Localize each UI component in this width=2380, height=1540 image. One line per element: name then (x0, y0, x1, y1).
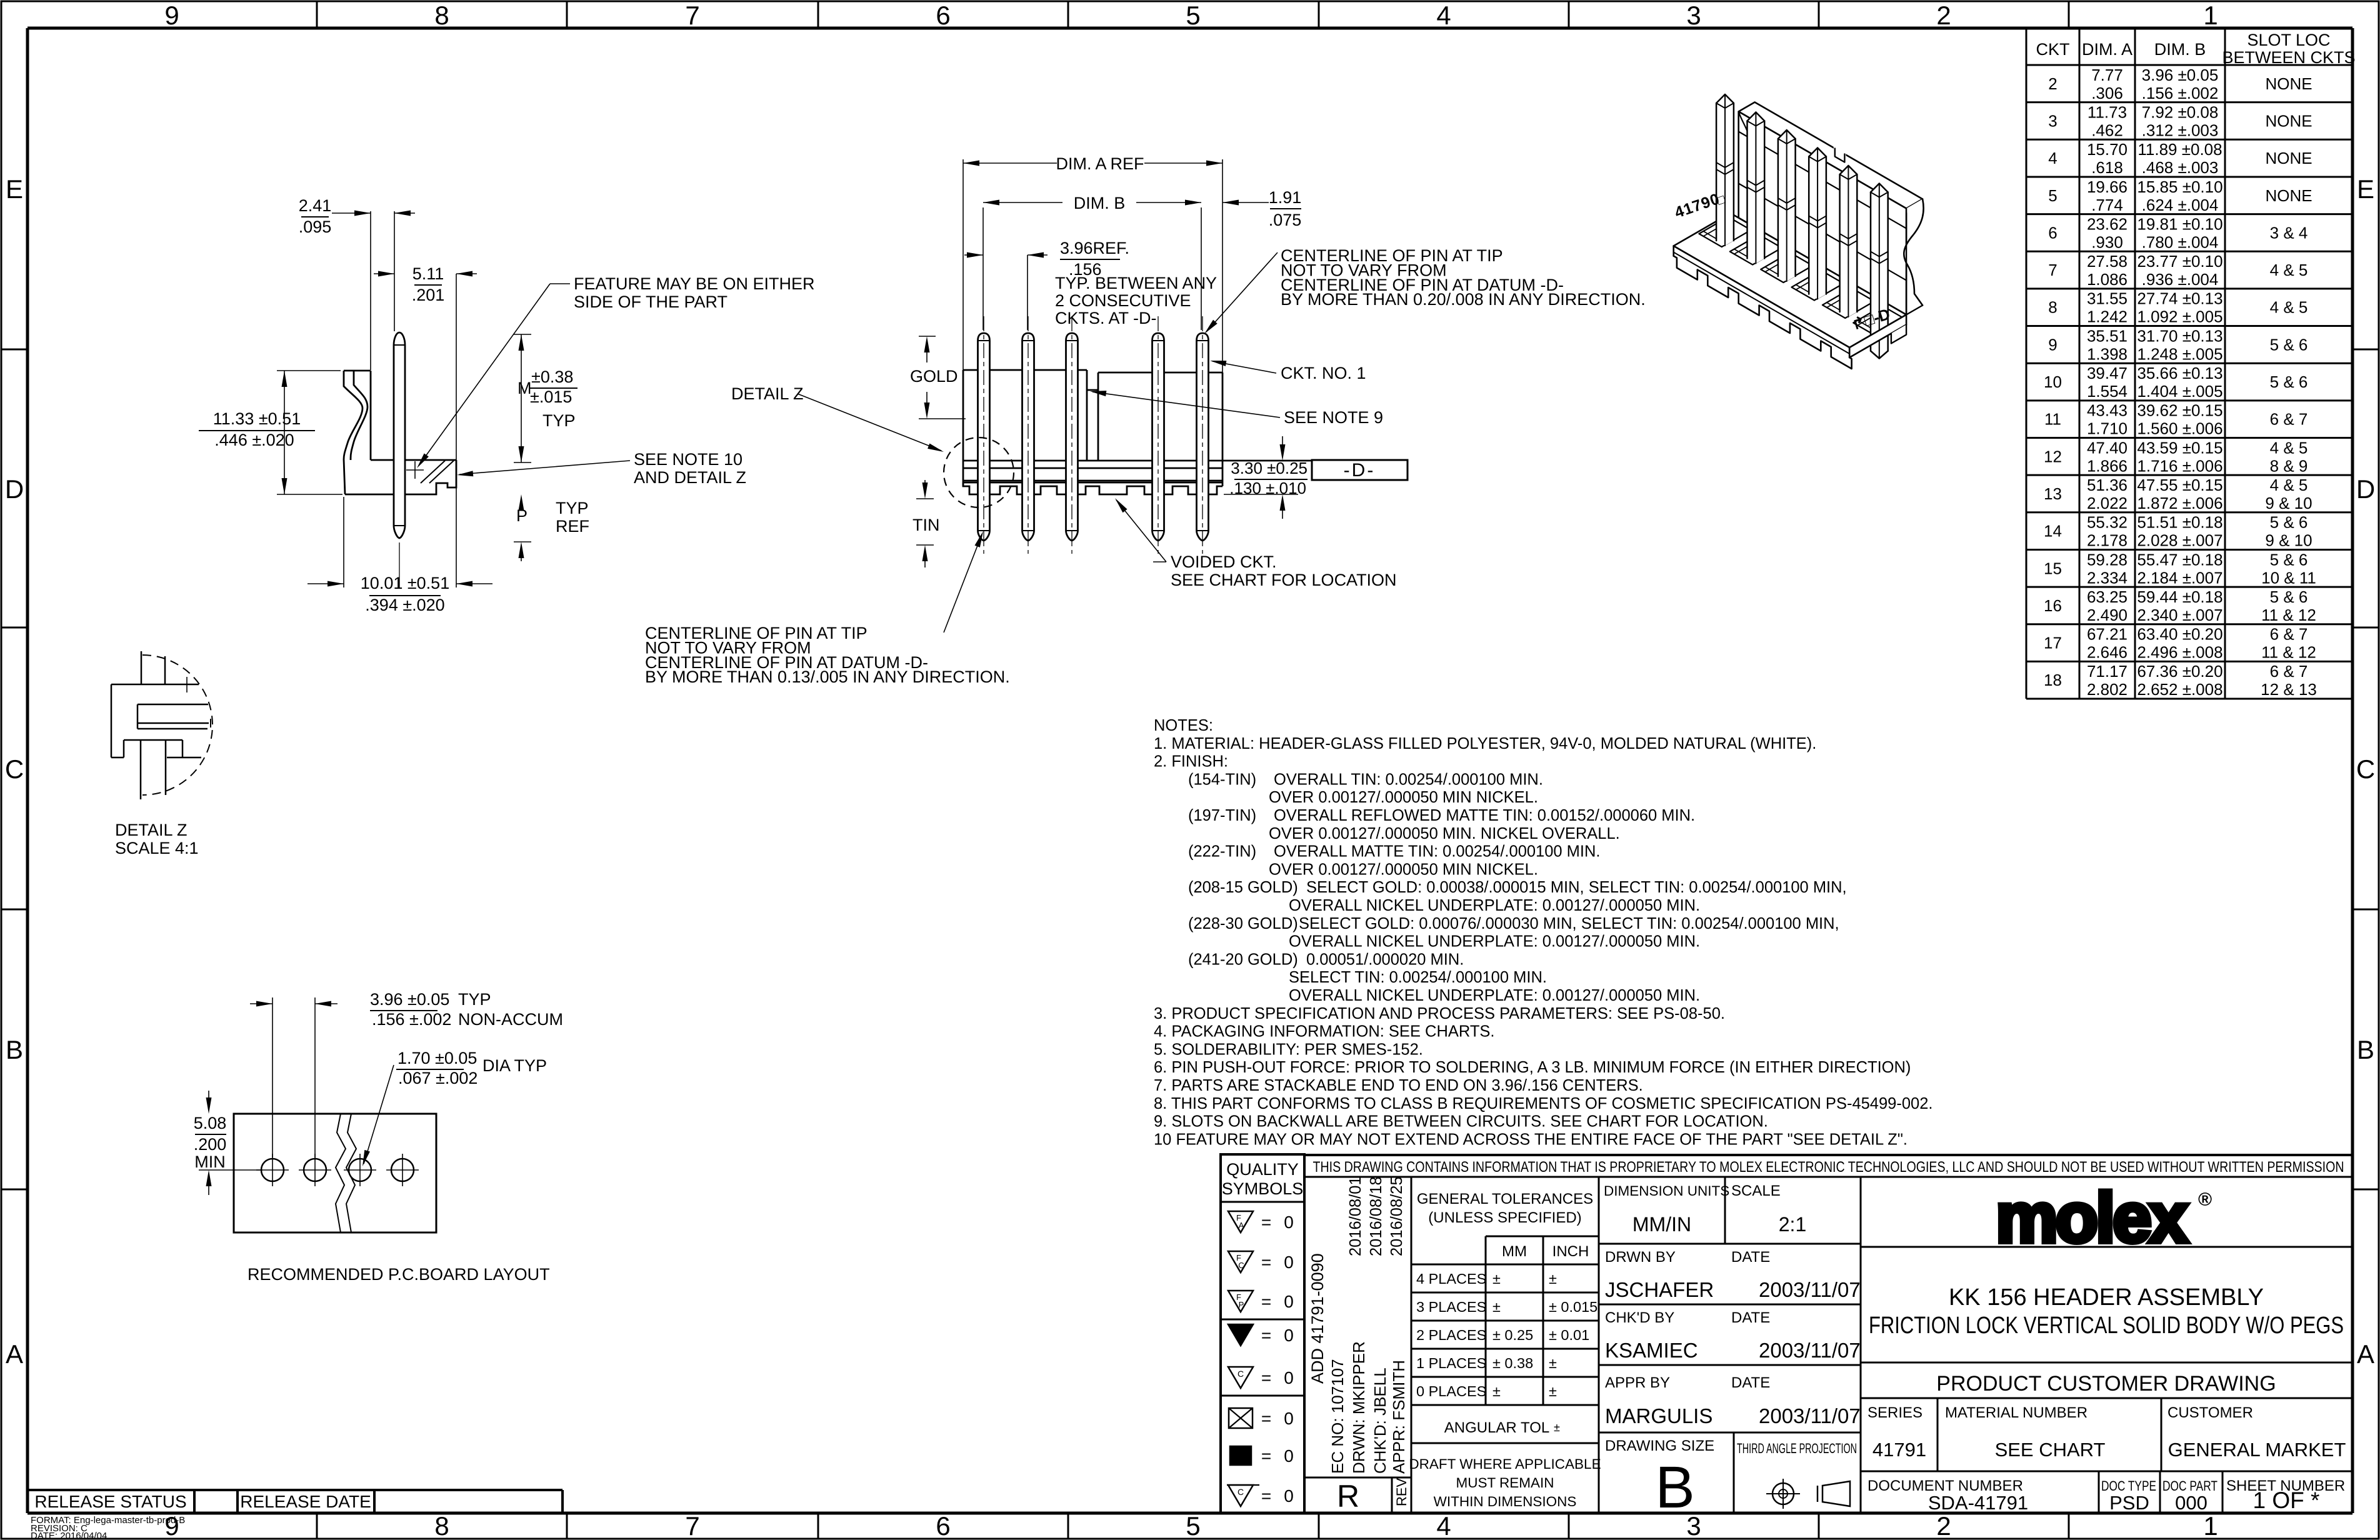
svg-text:8: 8 (2048, 298, 2057, 317)
svg-text:DIM. A REF: DIM. A REF (1056, 154, 1144, 173)
svg-text:5 & 6: 5 & 6 (2270, 550, 2308, 569)
svg-text:DETAIL Z: DETAIL Z (731, 384, 804, 403)
svg-text:16: 16 (2044, 596, 2062, 615)
svg-text:0: 0 (1284, 1486, 1294, 1506)
svg-text:AND DETAIL Z: AND DETAIL Z (634, 468, 746, 487)
svg-text:35.51: 35.51 (2087, 326, 2127, 345)
svg-text:11: 11 (2044, 410, 2061, 429)
svg-text:DATE: 2016/04/04: DATE: 2016/04/04 (31, 1531, 107, 1540)
svg-text:15: 15 (2044, 559, 2062, 577)
svg-text:=: = (1261, 1212, 1271, 1232)
svg-text:.156 ±.002: .156 ±.002 (372, 1010, 451, 1029)
svg-text:3: 3 (1686, 1, 1701, 30)
svg-text:=: = (1261, 1486, 1271, 1506)
svg-text:SIDE OF THE PART: SIDE OF THE PART (574, 292, 727, 311)
svg-text:6: 6 (2048, 223, 2057, 242)
svg-text:2.184 ±.007: 2.184 ±.007 (2137, 568, 2222, 587)
svg-text:43.59 ±0.15: 43.59 ±0.15 (2137, 438, 2222, 457)
svg-text:SEE CHART FOR LOCATION: SEE CHART FOR LOCATION (1171, 571, 1397, 589)
svg-text:59.28: 59.28 (2087, 550, 2127, 569)
svg-text:=: = (1261, 1446, 1271, 1466)
svg-text:51.51 ±0.18: 51.51 ±0.18 (2137, 513, 2222, 532)
svg-text:2: 2 (1936, 1511, 1951, 1540)
svg-text:31.70 ±0.13: 31.70 ±0.13 (2137, 326, 2222, 345)
svg-text:CKT. NO. 1: CKT. NO. 1 (1281, 364, 1366, 382)
svg-text:6 & 7: 6 & 7 (2270, 625, 2308, 644)
svg-text:.306: .306 (2091, 84, 2123, 102)
svg-text:4 & 5: 4 & 5 (2270, 298, 2308, 317)
svg-text:BETWEEN CKTS: BETWEEN CKTS (2222, 48, 2355, 67)
svg-text:.468 ±.003: .468 ±.003 (2142, 158, 2219, 177)
svg-text:OVERALL NICKEL UNDERPLATE: 0.0: OVERALL NICKEL UNDERPLATE: 0.00127/.0000… (1289, 897, 1700, 914)
svg-text:2: 2 (2048, 74, 2057, 93)
svg-text:.618: .618 (2091, 158, 2123, 177)
svg-text:CUSTOMER: CUSTOMER (2167, 1404, 2253, 1421)
svg-text:REF: REF (556, 517, 589, 536)
svg-text:10 & 11: 10 & 11 (2261, 568, 2316, 587)
svg-text:TYP: TYP (556, 499, 589, 517)
svg-text:67.36 ±0.20: 67.36 ±0.20 (2137, 662, 2222, 681)
svg-text:2016/08/01: 2016/08/01 (1347, 1176, 1364, 1256)
svg-text:19.81 ±0.10: 19.81 ±0.10 (2137, 214, 2222, 233)
svg-text:.462: .462 (2091, 121, 2123, 139)
svg-text:DATE: DATE (1731, 1249, 1770, 1266)
svg-text:OVERALL TIN: 0.00254/.000100 M: OVERALL TIN: 0.00254/.000100 MIN. (1274, 771, 1543, 788)
svg-text:2.340 ±.007: 2.340 ±.007 (2137, 606, 2222, 624)
svg-text:DRWN: MKIPPER: DRWN: MKIPPER (1349, 1341, 1368, 1474)
svg-text:9. SLOTS ON BACKWALL ARE BETWE: 9. SLOTS ON BACKWALL ARE BETWEEN CIRCUIT… (1154, 1113, 1768, 1131)
svg-text:5. SOLDERABILITY: PER SMES-152: 5. SOLDERABILITY: PER SMES-152. (1154, 1041, 1423, 1058)
svg-text:.780 ±.004: .780 ±.004 (2142, 232, 2219, 251)
svg-text:8: 8 (434, 1, 449, 30)
svg-text:OVER 0.00127/.000050 MIN NICKE: OVER 0.00127/.000050 MIN NICKEL. (1269, 861, 1538, 878)
svg-text:SLOT LOC: SLOT LOC (2247, 31, 2330, 49)
svg-text:JSCHAFER: JSCHAFER (1605, 1278, 1714, 1301)
svg-text:NONE: NONE (2265, 149, 2312, 167)
svg-text:2016/08/18: 2016/08/18 (1367, 1176, 1385, 1256)
svg-text:C: C (2356, 754, 2375, 784)
svg-text:MARGULIS: MARGULIS (1605, 1404, 1712, 1427)
svg-text:2 CONSECUTIVE: 2 CONSECUTIVE (1055, 291, 1191, 310)
svg-text:EC NO: 107107: EC NO: 107107 (1328, 1359, 1347, 1474)
svg-text:5 & 6: 5 & 6 (2270, 335, 2308, 354)
svg-text:71.17: 71.17 (2087, 662, 2127, 681)
svg-text:± 0.015: ± 0.015 (1549, 1299, 1597, 1315)
svg-text:NOTES:: NOTES: (1154, 717, 1213, 734)
svg-text:1: 1 (2203, 1, 2217, 30)
svg-text:2.022: 2.022 (2087, 494, 2127, 512)
svg-text:47.40: 47.40 (2087, 438, 2127, 457)
svg-text:.130 ±.010: .130 ±.010 (1229, 479, 1306, 497)
svg-text:=: = (1261, 1252, 1271, 1272)
svg-text:D: D (2356, 474, 2375, 504)
svg-text:2016/08/25: 2016/08/25 (1388, 1176, 1406, 1256)
svg-text:VOIDED CKT.: VOIDED CKT. (1171, 552, 1277, 571)
svg-text:4 PLACES: 4 PLACES (1416, 1271, 1486, 1287)
svg-text:(UNLESS SPECIFIED): (UNLESS SPECIFIED) (1428, 1209, 1581, 1226)
svg-text:55.32: 55.32 (2087, 513, 2127, 532)
svg-text:SDA-41791: SDA-41791 (1928, 1492, 2028, 1514)
svg-text:(208-15 GOLD): (208-15 GOLD) (1188, 879, 1298, 896)
svg-text:1.092 ±.005: 1.092 ±.005 (2137, 307, 2222, 326)
svg-text:1.404 ±.005: 1.404 ±.005 (2137, 382, 2222, 401)
svg-text:5: 5 (1186, 1511, 1200, 1540)
svg-text:TYP. BETWEEN ANY: TYP. BETWEEN ANY (1055, 274, 1217, 292)
svg-text:TYP: TYP (542, 411, 576, 430)
svg-text:OVERALL NICKEL UNDERPLATE: 0.: OVERALL NICKEL UNDERPLATE: 0.00127/.0000… (1289, 933, 1700, 951)
svg-text:C: C (1238, 1261, 1244, 1270)
svg-text:2.496 ±.008: 2.496 ±.008 (2137, 643, 2222, 662)
svg-text:2.334: 2.334 (2087, 568, 2127, 587)
svg-text:SERIES: SERIES (1867, 1404, 1922, 1421)
svg-text:43.43: 43.43 (2087, 401, 2127, 420)
svg-text:A: A (2357, 1339, 2374, 1369)
svg-text:39.47: 39.47 (2087, 364, 2127, 382)
svg-text:THIS DRAWING CONTAINS INFORMAT: THIS DRAWING CONTAINS INFORMATION THAT I… (1313, 1159, 2344, 1176)
svg-text:8: 8 (434, 1511, 449, 1540)
svg-text:SELECT TIN: 0.00254/.000100 MI: SELECT TIN: 0.00254/.000100 MIN. (1289, 969, 1547, 986)
svg-text:=: = (1261, 1409, 1271, 1428)
svg-text:0: 0 (1284, 1446, 1294, 1466)
svg-text:7. PARTS ARE STACKABLE END TO: 7. PARTS ARE STACKABLE END TO END ON 3.9… (1154, 1077, 1643, 1094)
svg-text:KSAMIEC: KSAMIEC (1605, 1339, 1698, 1362)
svg-text:INCH: INCH (1552, 1243, 1589, 1260)
svg-text:1. MATERIAL: HEADER-GLASS FILL: 1. MATERIAL: HEADER-GLASS FILLED POLYEST… (1154, 735, 1816, 752)
svg-text:11 & 12: 11 & 12 (2261, 643, 2316, 662)
svg-text:23.77 ±0.10: 23.77 ±0.10 (2137, 252, 2222, 271)
svg-text:MM/IN: MM/IN (1632, 1213, 1691, 1236)
svg-text:35.66 ±0.13: 35.66 ±0.13 (2137, 364, 2222, 382)
svg-text:.936 ±.004: .936 ±.004 (2142, 270, 2219, 289)
svg-text:R: R (1337, 1479, 1359, 1514)
svg-text:SEE NOTE 10: SEE NOTE 10 (634, 450, 742, 469)
svg-text:2003/11/07: 2003/11/07 (1759, 1339, 1861, 1362)
svg-text:2.028 ±.007: 2.028 ±.007 (2137, 531, 2222, 550)
svg-text:0: 0 (1284, 1252, 1294, 1272)
svg-text:9 & 10: 9 & 10 (2265, 531, 2312, 550)
svg-text:2.490: 2.490 (2087, 606, 2127, 624)
svg-text:THIRD ANGLE PROJECTION: THIRD ANGLE PROJECTION (1737, 1441, 1857, 1456)
svg-text:4 & 5: 4 & 5 (2270, 476, 2308, 494)
svg-text:(222-TIN): (222-TIN) (1188, 843, 1256, 861)
svg-text:3: 3 (2048, 111, 2057, 130)
svg-text:5: 5 (1186, 1, 1200, 30)
svg-text:10: 10 (2044, 372, 2062, 391)
svg-text:0: 0 (1284, 1368, 1294, 1387)
svg-text:.624 ±.004: .624 ±.004 (2142, 196, 2219, 214)
svg-text:molex: molex (1996, 1179, 2187, 1257)
svg-text:.774: .774 (2091, 196, 2123, 214)
svg-text:18: 18 (2044, 671, 2062, 689)
svg-text:2.652 ±.008: 2.652 ±.008 (2137, 680, 2222, 699)
svg-text:7: 7 (685, 1, 699, 30)
svg-text:CHK'D BY: CHK'D BY (1605, 1309, 1674, 1326)
svg-text:± 0.01: ± 0.01 (1549, 1327, 1589, 1343)
svg-text:2.41: 2.41 (299, 196, 332, 215)
svg-text:E: E (2357, 174, 2374, 204)
svg-text:3.96 ±0.05: 3.96 ±0.05 (2142, 66, 2219, 84)
svg-text:3 & 4: 3 & 4 (2270, 223, 2308, 242)
svg-text:APPR: FSMITH: APPR: FSMITH (1389, 1360, 1408, 1474)
svg-text:=: = (1261, 1292, 1271, 1311)
svg-text:3 PLACES: 3 PLACES (1416, 1299, 1486, 1315)
svg-text:0: 0 (1284, 1326, 1294, 1345)
svg-text:.067 ±.002: .067 ±.002 (398, 1069, 477, 1087)
svg-text:0.00051/.000020 MIN.: 0.00051/.000020 MIN. (1306, 951, 1464, 968)
svg-text:KK 156 HEADER ASSEMBLY: KK 156 HEADER ASSEMBLY (1949, 1284, 2264, 1311)
svg-text:MUST REMAIN: MUST REMAIN (1456, 1475, 1554, 1491)
svg-text:1.872 ±.006: 1.872 ±.006 (2137, 494, 2222, 512)
svg-text:23.62: 23.62 (2087, 214, 2127, 233)
svg-text:ADD 41791-0090: ADD 41791-0090 (1308, 1253, 1327, 1384)
svg-text:1.398: 1.398 (2087, 344, 2127, 363)
svg-text:3.30 ±0.25: 3.30 ±0.25 (1231, 459, 1307, 477)
svg-text:CKT: CKT (2036, 40, 2070, 59)
svg-text:(197-TIN): (197-TIN) (1188, 807, 1256, 824)
svg-text:67.21: 67.21 (2087, 625, 2127, 644)
svg-text:5 & 6: 5 & 6 (2270, 587, 2308, 606)
svg-text:BY MORE THAN 0.20/.008 IN ANY: BY MORE THAN 0.20/.008 IN ANY DIRECTION. (1281, 290, 1646, 309)
svg-text:63.40 ±0.20: 63.40 ±0.20 (2137, 625, 2222, 644)
svg-text:-D-: -D- (1344, 460, 1376, 481)
svg-text:SYMBOLS: SYMBOLS (1222, 1179, 1304, 1198)
svg-text:2.646: 2.646 (2087, 643, 2127, 662)
svg-text:±: ± (1492, 1299, 1501, 1315)
svg-text:SCALE: SCALE (1731, 1182, 1781, 1199)
svg-text:± 0.38: ± 0.38 (1492, 1355, 1533, 1371)
svg-text:31.55: 31.55 (2087, 289, 2127, 308)
svg-text:NONE: NONE (2265, 74, 2312, 93)
svg-text:.446 ±.020: .446 ±.020 (214, 431, 294, 449)
svg-text:SEE NOTE 9: SEE NOTE 9 (1284, 408, 1383, 427)
svg-text:FEATURE MAY BE ON EITHER: FEATURE MAY BE ON EITHER (574, 274, 815, 293)
svg-text:7: 7 (2048, 261, 2057, 279)
svg-text:10.01 ±0.51: 10.01 ±0.51 (361, 574, 449, 592)
svg-text:NONE: NONE (2265, 111, 2312, 130)
svg-text:REV: REV (1394, 1477, 1409, 1506)
svg-text:5.08: 5.08 (194, 1114, 227, 1132)
svg-text:OVER 0.00127/.000050 MIN NICKE: OVER 0.00127/.000050 MIN NICKEL. (1269, 789, 1538, 806)
svg-text:4. PACKAGING INFORMATION: SEE: 4. PACKAGING INFORMATION: SEE CHARTS. (1154, 1023, 1495, 1041)
svg-text:DIM. B: DIM. B (1074, 194, 1126, 212)
svg-text:=: = (1261, 1368, 1271, 1387)
svg-text:3.96REF.: 3.96REF. (1060, 239, 1129, 257)
svg-text:9: 9 (164, 1, 179, 30)
svg-text:TYP: TYP (458, 990, 491, 1009)
svg-text:41791: 41791 (1872, 1439, 1926, 1461)
svg-text:2.802: 2.802 (2087, 680, 2127, 699)
svg-text:=: = (1261, 1326, 1271, 1345)
svg-text:15.70: 15.70 (2087, 140, 2127, 159)
svg-text:±: ± (1549, 1383, 1557, 1399)
svg-text:B: B (1655, 1454, 1694, 1521)
svg-text:DRAFT WHERE APPLICABLE: DRAFT WHERE APPLICABLE (1409, 1456, 1601, 1472)
svg-text:B: B (6, 1035, 23, 1064)
svg-text:DETAIL Z: DETAIL Z (115, 821, 187, 839)
svg-text:SELECT GOLD: 0.00076/.000030: SELECT GOLD: 0.00076/.000030 MIN, SELECT… (1299, 915, 1839, 932)
svg-text:1.91: 1.91 (1269, 188, 1302, 207)
svg-text:17: 17 (2044, 634, 2062, 652)
svg-text:9 & 10: 9 & 10 (2265, 494, 2312, 512)
svg-text:7: 7 (685, 1511, 699, 1540)
svg-text:14: 14 (2044, 522, 2062, 541)
svg-text:±.015: ±.015 (530, 387, 572, 406)
svg-text:000: 000 (2175, 1492, 2207, 1514)
svg-text:OVERALL REFLOWED MATTE TIN: 0.: OVERALL REFLOWED MATTE TIN: 0.00152/.000… (1274, 807, 1695, 824)
svg-text:.095: .095 (299, 217, 332, 236)
svg-text:1.866: 1.866 (2087, 456, 2127, 475)
svg-text:6: 6 (936, 1511, 950, 1540)
svg-text:OVER 0.00127/.000050 MIN. NICK: OVER 0.00127/.000050 MIN. NICKEL OVERALL… (1269, 825, 1620, 842)
svg-text:5 & 6: 5 & 6 (2270, 372, 2308, 391)
svg-text:D: D (5, 474, 24, 504)
svg-text:.075: .075 (1269, 211, 1302, 229)
svg-text:10 FEATURE MAY OR MAY NOT EXTE: 10 FEATURE MAY OR MAY NOT EXTEND ACROSS … (1154, 1131, 1907, 1148)
svg-text:6 & 7: 6 & 7 (2270, 662, 2308, 681)
svg-text:DRWN BY: DRWN BY (1605, 1249, 1676, 1266)
svg-text:(154-TIN): (154-TIN) (1188, 771, 1256, 788)
svg-text:±: ± (1492, 1383, 1501, 1399)
svg-text:7.92 ±0.08: 7.92 ±0.08 (2142, 102, 2219, 121)
svg-text:2.178: 2.178 (2087, 531, 2127, 550)
svg-text:6: 6 (936, 1, 950, 30)
svg-text:8. THIS PART CONFORMS TO CLASS: 8. THIS PART CONFORMS TO CLASS B REQUIRE… (1154, 1095, 1932, 1112)
svg-text:6 & 7: 6 & 7 (2270, 410, 2308, 429)
svg-text:.201: .201 (412, 286, 445, 304)
svg-text:RELEASE STATUS: RELEASE STATUS (34, 1492, 186, 1511)
svg-text:MIN: MIN (194, 1152, 226, 1171)
svg-text:11.73: 11.73 (2087, 102, 2127, 121)
svg-text:4: 4 (1436, 1511, 1451, 1540)
svg-text:0: 0 (1284, 1212, 1294, 1232)
svg-text:MATERIAL NUMBER: MATERIAL NUMBER (1945, 1404, 2087, 1421)
svg-text:(241-20 GOLD): (241-20 GOLD) (1188, 951, 1298, 968)
svg-text:PRODUCT CUSTOMER DRAWING: PRODUCT CUSTOMER DRAWING (1936, 1372, 2276, 1396)
svg-text:MM: MM (1502, 1243, 1527, 1260)
svg-text:59.44 ±0.18: 59.44 ±0.18 (2137, 587, 2222, 606)
svg-text:(228-30 GOLD): (228-30 GOLD) (1188, 915, 1298, 932)
svg-text:1.086: 1.086 (2087, 270, 2127, 289)
svg-text:2 PLACES: 2 PLACES (1416, 1327, 1486, 1343)
svg-text:63.25: 63.25 (2087, 587, 2127, 606)
svg-text:0 PLACES: 0 PLACES (1416, 1383, 1486, 1399)
svg-text:8 & 9: 8 & 9 (2270, 456, 2308, 475)
svg-text:6. PIN PUSH-OUT FORCE: PRIOR T: 6. PIN PUSH-OUT FORCE: PRIOR TO SOLDERIN… (1154, 1059, 1911, 1076)
svg-text:SELECT GOLD: 0.00038/.000015 M: SELECT GOLD: 0.00038/.000015 MIN, SELECT… (1306, 879, 1847, 896)
svg-text:4: 4 (2048, 149, 2057, 167)
svg-text:1 OF *: 1 OF * (2253, 1487, 2320, 1513)
svg-text:2003/11/07: 2003/11/07 (1759, 1404, 1861, 1427)
svg-text:DIA TYP: DIA TYP (482, 1056, 547, 1075)
svg-text:1.710: 1.710 (2087, 419, 2127, 438)
svg-text:1 PLACES: 1 PLACES (1416, 1355, 1486, 1371)
svg-text:.312 ±.003: .312 ±.003 (2142, 121, 2219, 139)
svg-text:4 & 5: 4 & 5 (2270, 438, 2308, 457)
svg-text:P: P (516, 506, 527, 525)
svg-text:SCALE 4:1: SCALE 4:1 (115, 839, 199, 857)
svg-text:± 0.25: ± 0.25 (1492, 1327, 1533, 1343)
svg-text:DIMENSION UNITS: DIMENSION UNITS (1604, 1183, 1729, 1199)
svg-text:A: A (6, 1339, 23, 1369)
svg-text:39.62 ±0.15: 39.62 ±0.15 (2137, 401, 2222, 420)
svg-text:.930: .930 (2091, 232, 2123, 251)
svg-text:3. PRODUCT SPECIFICATION AND P: 3. PRODUCT SPECIFICATION AND PROCESS PAR… (1154, 1005, 1725, 1022)
svg-text:4 & 5: 4 & 5 (2270, 261, 2308, 279)
svg-text:55.47 ±0.18: 55.47 ±0.18 (2137, 550, 2222, 569)
svg-text:GENERAL TOLERANCES: GENERAL TOLERANCES (1417, 1191, 1593, 1207)
svg-text:13: 13 (2044, 484, 2062, 503)
svg-text:1: 1 (2203, 1511, 2217, 1540)
svg-text:2: 2 (1936, 1, 1951, 30)
svg-text:NONE: NONE (2265, 186, 2312, 205)
svg-text:.156 ±.002: .156 ±.002 (2142, 84, 2219, 102)
svg-text:C: C (5, 754, 24, 784)
svg-text:NON-ACCUM: NON-ACCUM (458, 1010, 563, 1029)
svg-text:2:1: 2:1 (1779, 1213, 1806, 1236)
svg-text:OVERALL NICKEL UNDERPLATE: 0.0: OVERALL NICKEL UNDERPLATE: 0.00127/.0000… (1289, 987, 1700, 1004)
svg-text:19.66: 19.66 (2087, 177, 2127, 196)
svg-text:C: C (1237, 1369, 1244, 1379)
svg-text:.394 ±.020: .394 ±.020 (365, 596, 444, 614)
svg-text:27.58: 27.58 (2087, 252, 2127, 271)
svg-text:FRICTION LOCK VERTICAL SOLID B: FRICTION LOCK VERTICAL SOLID BODY W/O PE… (1869, 1312, 2344, 1339)
svg-text:15.85 ±0.10: 15.85 ±0.10 (2137, 177, 2222, 196)
svg-text:7.77: 7.77 (2091, 66, 2123, 84)
svg-text:BY MORE THAN 0.13/.005 IN ANY: BY MORE THAN 0.13/.005 IN ANY DIRECTION. (645, 667, 1010, 686)
svg-text:±: ± (1549, 1271, 1557, 1287)
svg-text:PSD: PSD (2109, 1492, 2149, 1514)
svg-text:1.248 ±.005: 1.248 ±.005 (2137, 344, 2222, 363)
svg-text:27.74 ±0.13: 27.74 ±0.13 (2137, 289, 2222, 308)
svg-text:QUALITY: QUALITY (1226, 1160, 1299, 1179)
svg-text:1.70 ±0.05: 1.70 ±0.05 (397, 1049, 477, 1067)
svg-text:P: P (1239, 1300, 1244, 1309)
svg-text:9: 9 (2048, 335, 2057, 354)
svg-text:5.11: 5.11 (412, 264, 444, 283)
svg-text:®: ® (2198, 1189, 2212, 1210)
svg-text:1.560 ±.006: 1.560 ±.006 (2137, 419, 2222, 438)
svg-text:APPR BY: APPR BY (1605, 1374, 1670, 1391)
svg-text:47.55 ±0.15: 47.55 ±0.15 (2137, 476, 2222, 494)
svg-text:DIM. A: DIM. A (2082, 40, 2132, 59)
svg-text:CHK'D: JBELL: CHK'D: JBELL (1371, 1367, 1389, 1474)
svg-text:C: C (1237, 1487, 1244, 1497)
svg-text:±: ± (1554, 1421, 1560, 1434)
svg-text:11 & 12: 11 & 12 (2261, 606, 2316, 624)
svg-text:OVERALL MATTE TIN: 0.00254/.00: OVERALL MATTE TIN: 0.00254/.000100 MIN. (1274, 843, 1601, 861)
svg-text:GOLD: GOLD (910, 367, 958, 386)
svg-text:12: 12 (2044, 447, 2062, 466)
svg-text:3.96 ±0.05: 3.96 ±0.05 (370, 990, 449, 1009)
svg-text:2003/11/07: 2003/11/07 (1759, 1278, 1861, 1301)
svg-text:RELEASE DATE: RELEASE DATE (240, 1492, 371, 1511)
svg-text:4: 4 (1436, 1, 1451, 30)
svg-text:DIM. B: DIM. B (2154, 40, 2206, 59)
svg-text:B: B (2357, 1035, 2374, 1064)
svg-text:1.716 ±.006: 1.716 ±.006 (2137, 456, 2222, 475)
svg-text:11.33 ±0.51: 11.33 ±0.51 (213, 409, 301, 428)
svg-text:11.89 ±0.08: 11.89 ±0.08 (2137, 140, 2222, 159)
svg-text:±: ± (1549, 1355, 1557, 1371)
svg-text:.200: .200 (194, 1135, 227, 1154)
svg-text:E: E (6, 174, 23, 204)
svg-text:12 & 13: 12 & 13 (2261, 680, 2317, 699)
svg-text:1.554: 1.554 (2087, 382, 2127, 401)
svg-text:±: ± (1492, 1271, 1501, 1287)
svg-text:GENERAL MARKET: GENERAL MARKET (2168, 1439, 2346, 1461)
svg-text:TIN: TIN (912, 516, 940, 534)
svg-text:A: A (1239, 1221, 1244, 1230)
